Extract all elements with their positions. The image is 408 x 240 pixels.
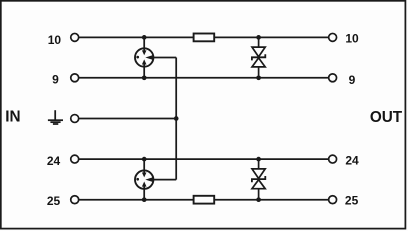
- svg-text:OUT: OUT: [370, 109, 403, 126]
- ground symbol: [48, 110, 63, 124]
- junction GDT F2 / line 25: [142, 197, 147, 202]
- suppressor diode D2: [252, 159, 265, 200]
- wire line 24: [79, 158, 329, 160]
- terminal OUT 10: [329, 33, 337, 41]
- terminal IN ground: [71, 115, 79, 123]
- gas discharge tube F2: [135, 159, 153, 200]
- wire GDT F2 right electrode to bus: [149, 179, 176, 181]
- svg-text:9: 9: [349, 73, 356, 87]
- svg-text:24: 24: [345, 154, 359, 168]
- svg-text:25: 25: [47, 194, 61, 208]
- terminal OUT 24: [329, 155, 337, 163]
- svg-text:10: 10: [345, 32, 359, 46]
- terminal IN 9: [71, 74, 79, 82]
- svg-text:25: 25: [345, 194, 359, 208]
- wire line 25 right segment: [214, 199, 329, 201]
- junction GDT F2 / line 24: [142, 157, 147, 162]
- wire line 10 right segment: [214, 36, 329, 38]
- junction GDT F1 / line 9: [142, 75, 147, 80]
- terminal OUT 9: [329, 74, 337, 82]
- svg-text:24: 24: [47, 154, 61, 168]
- svg-text:9: 9: [52, 73, 59, 87]
- junction GDT F1 / line 10: [142, 35, 147, 40]
- wire line 10 left segment: [79, 36, 194, 38]
- resistor R2 (line 25): [194, 196, 215, 204]
- resistor R1 (line 10): [194, 34, 215, 42]
- terminal IN 25: [71, 196, 79, 204]
- junction D2 / line 25: [256, 197, 261, 202]
- wire line 25 left segment: [79, 199, 194, 201]
- junction D1 / line 10: [256, 35, 261, 40]
- junction D2 / line 24: [256, 157, 261, 162]
- terminal OUT 25: [329, 196, 337, 204]
- terminal IN 24: [71, 155, 79, 163]
- terminal IN 10: [71, 33, 79, 41]
- wire GDT F1 right electrode to bus: [149, 57, 176, 59]
- wire line 9: [79, 77, 329, 79]
- gas discharge tube F1: [135, 37, 153, 77]
- junction D1 / line 9: [256, 75, 261, 80]
- wire ground line: [79, 118, 177, 120]
- wire ground bus vertical: [175, 58, 177, 180]
- junction ground bus: [174, 116, 179, 121]
- suppressor diode D1: [252, 37, 265, 77]
- svg-text:IN: IN: [5, 109, 20, 126]
- svg-text:10: 10: [48, 33, 62, 47]
